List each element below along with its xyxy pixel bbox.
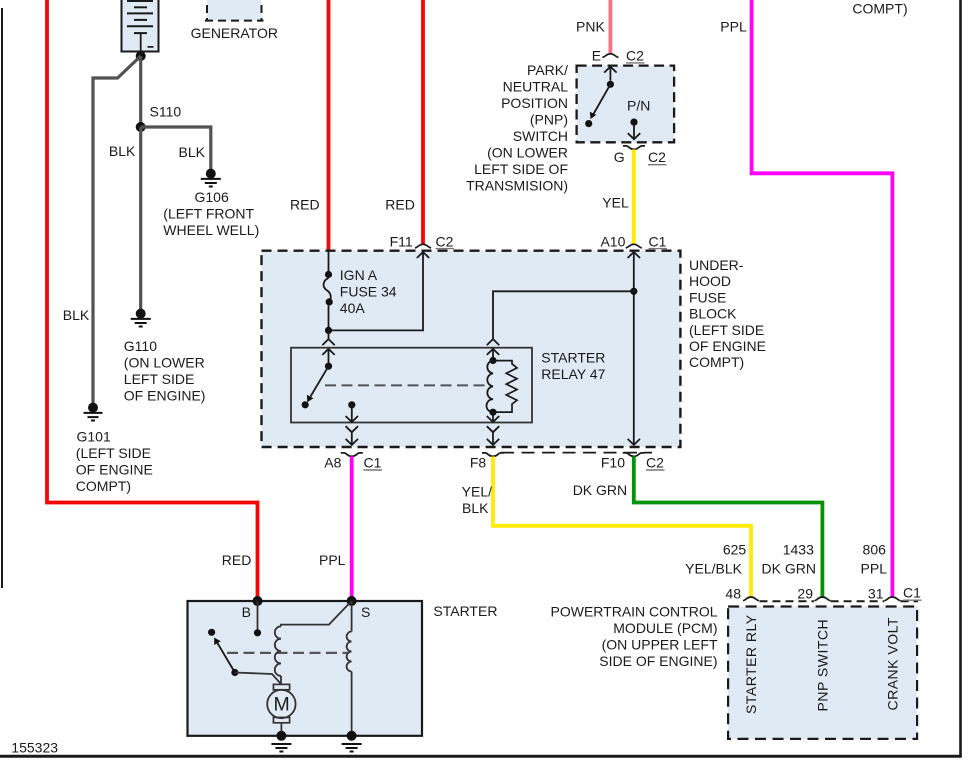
svg-text:C2: C2 — [646, 455, 664, 471]
svg-text:C2: C2 — [626, 47, 644, 63]
arrow terminal F11 — [417, 252, 429, 258]
svg-text:PARK/: PARK/ — [527, 62, 568, 78]
svg-text:40A: 40A — [340, 300, 366, 316]
connector pin F8 — [482, 453, 504, 457]
svg-text:G106: G106 — [195, 189, 229, 205]
svg-text:B: B — [242, 604, 251, 620]
wire relay coil to F8 — [492, 412, 494, 422]
underhood fuse block box — [262, 251, 681, 447]
wire YEL PNP G to A10 — [632, 150, 636, 245]
svg-text:NEUTRAL: NEUTRAL — [503, 78, 569, 94]
arrow terminal A10 — [628, 252, 640, 258]
connector pin 48 — [743, 597, 759, 601]
svg-text:SWITCH: SWITCH — [513, 128, 568, 144]
svg-text:LEFT SIDE OF: LEFT SIDE OF — [474, 161, 568, 177]
svg-text:OF ENGINE: OF ENGINE — [76, 462, 153, 478]
svg-text:G110: G110 — [124, 338, 157, 354]
svg-text:1433: 1433 — [783, 542, 814, 558]
svg-text:C1: C1 — [649, 234, 667, 250]
svg-text:LEFT SIDE: LEFT SIDE — [124, 371, 195, 387]
node battery negative terminal — [136, 51, 146, 61]
connector pin A8 C1 — [341, 453, 363, 457]
svg-text:(LEFT FRONT: (LEFT FRONT — [163, 205, 254, 221]
svg-text:DK GRN: DK GRN — [762, 561, 816, 577]
svg-text:PPL: PPL — [861, 561, 888, 577]
PNP switch movable blade — [607, 81, 614, 88]
svg-text:(PNP): (PNP) — [530, 111, 568, 127]
svg-text:UNDER-: UNDER- — [689, 257, 744, 273]
svg-text:(ON LOWER: (ON LOWER — [124, 355, 205, 371]
svg-text:RED: RED — [385, 197, 415, 213]
svg-text:F8: F8 — [470, 455, 487, 471]
svg-text:STARTER: STARTER — [541, 350, 605, 366]
label UNDERHOOD FUSE BLOCK — [689, 257, 766, 370]
svg-text:RED: RED — [222, 552, 252, 568]
svg-text:OF ENGINE: OF ENGINE — [689, 338, 766, 354]
svg-text:155323: 155323 — [11, 739, 58, 755]
connector pin 29 — [814, 597, 830, 601]
fuse IGN A FUSE 34 40A — [324, 250, 333, 330]
svg-text:C1: C1 — [364, 455, 382, 471]
relay coil feed from A10 junction — [493, 291, 634, 339]
svg-text:PPL: PPL — [319, 552, 346, 568]
ground G101 — [84, 403, 103, 421]
PCM connector row — [760, 600, 919, 602]
starter switch contact — [208, 629, 215, 636]
node starter S terminal — [347, 596, 357, 606]
connector pin G C2 — [623, 146, 645, 150]
svg-text:HOOD: HOOD — [689, 273, 731, 289]
battery B1 — [122, 0, 159, 56]
wire PPL A8 to starter S — [350, 457, 354, 602]
arrow terminal E inside PNP — [604, 67, 616, 73]
svg-text:GENERATOR: GENERATOR — [191, 25, 278, 41]
connector pin F10 C2 — [623, 453, 645, 457]
svg-text:S110: S110 — [150, 104, 182, 120]
wire YEL/BLK F8 to PCM 48 — [493, 457, 751, 598]
label PARK/NEUTRAL POSITION SWITCH — [466, 62, 568, 194]
svg-text:FUSE 34: FUSE 34 — [340, 284, 397, 300]
svg-text:YEL/BLK: YEL/BLK — [685, 561, 742, 577]
starter pull-in coil — [275, 626, 281, 676]
svg-text:S: S — [361, 604, 370, 620]
svg-text:BLK: BLK — [63, 307, 90, 323]
svg-text:STARTER RLY: STARTER RLY — [743, 614, 759, 714]
wire BLK S110 to G110 — [139, 127, 142, 310]
wire DK GRN F10 to PCM 29 — [634, 457, 823, 598]
wire relay output to A8 — [351, 405, 353, 422]
svg-text:806: 806 — [863, 542, 887, 558]
relay output contact — [348, 401, 355, 408]
relay coil — [489, 357, 496, 364]
svg-text:CRANK VOLT: CRANK VOLT — [884, 617, 900, 710]
svg-text:A8: A8 — [324, 455, 341, 471]
svg-text:(ON UPPER LEFT: (ON UPPER LEFT — [602, 637, 718, 653]
svg-text:YEL: YEL — [602, 195, 629, 211]
svg-text:C2: C2 — [648, 149, 666, 165]
wire fuse to relay common — [328, 330, 330, 339]
svg-text:BLK: BLK — [109, 143, 136, 159]
wire RED to F11 — [421, 0, 425, 245]
svg-text:SIDE OF ENGINE): SIDE OF ENGINE) — [599, 653, 717, 669]
wire BLK battery to S110 — [139, 56, 142, 127]
starter solenoid ground — [342, 731, 362, 752]
relay switch blade — [311, 366, 329, 396]
svg-text:COMPT): COMPT) — [852, 1, 907, 17]
connector pin E C2 — [602, 54, 618, 58]
svg-text:OF ENGINE): OF ENGINE) — [124, 388, 206, 404]
svg-text:WHEEL WELL): WHEEL WELL) — [163, 222, 259, 238]
connector C2 strip at fuse block bottom — [501, 452, 652, 454]
wire A10 through fuse block to F10 — [633, 252, 635, 445]
svg-text:PPL: PPL — [720, 19, 747, 35]
starter switch to motor strap — [235, 673, 281, 684]
frame bottom border — [0, 755, 962, 758]
svg-text:YEL/: YEL/ — [462, 484, 492, 500]
frame right border — [959, 0, 962, 757]
svg-text:29: 29 — [797, 585, 813, 601]
svg-text:FUSE: FUSE — [689, 289, 726, 305]
svg-text:BLOCK: BLOCK — [689, 306, 737, 322]
node junction on A10-F10 wire — [630, 288, 637, 295]
svg-text:POSITION: POSITION — [501, 95, 568, 111]
svg-text:BLK: BLK — [179, 144, 206, 160]
svg-text:TRANSMISION): TRANSMISION) — [466, 177, 568, 193]
svg-text:31: 31 — [868, 585, 884, 601]
PNP P/N contact with arrow to G — [630, 119, 637, 126]
svg-text:DK GRN: DK GRN — [573, 482, 627, 498]
wire RED to fuse block IGN A — [327, 0, 331, 250]
starter box — [188, 601, 423, 736]
svg-text:COMPT): COMPT) — [689, 354, 744, 370]
svg-text:F11: F11 — [390, 234, 413, 250]
svg-text:M: M — [274, 694, 290, 716]
connector pin 31 — [884, 597, 900, 601]
starter linkage dashed — [227, 652, 348, 654]
label POWERTRAIN CONTROL MODULE — [551, 604, 718, 670]
starter switch blade — [217, 642, 235, 673]
starter motor M — [267, 684, 295, 735]
ground G110 — [131, 309, 151, 327]
relay linkage dashed — [325, 384, 490, 386]
frame left border — [1, 8, 3, 588]
PCM box — [728, 607, 917, 739]
svg-text:G101: G101 — [77, 429, 111, 445]
svg-text:625: 625 — [723, 542, 747, 558]
wire PPL to PCM crank volt — [752, 0, 893, 597]
wire BLK S110 to G106 — [141, 127, 211, 169]
wire PNK to PNP switch E — [609, 0, 613, 53]
svg-text:RELAY 47: RELAY 47 — [541, 366, 605, 382]
svg-text:STARTER: STARTER — [433, 603, 497, 619]
svg-text:E: E — [592, 47, 601, 63]
svg-text:48: 48 — [725, 585, 741, 601]
svg-text:COMPT): COMPT) — [76, 478, 131, 494]
svg-text:A10: A10 — [600, 234, 625, 250]
starter motor ground — [271, 731, 291, 752]
svg-text:IGN A: IGN A — [340, 267, 378, 283]
svg-text:C2: C2 — [436, 234, 454, 250]
svg-text:C1: C1 — [903, 585, 921, 601]
wire F11 to fuse output — [329, 252, 424, 330]
svg-text:MODULE (PCM): MODULE (PCM) — [613, 620, 717, 636]
svg-text:P/N: P/N — [627, 98, 650, 114]
svg-text:F10: F10 — [601, 455, 625, 471]
PNP contact dot — [585, 120, 592, 127]
starter hold-in coil — [351, 601, 353, 632]
svg-text:(LEFT SIDE: (LEFT SIDE — [689, 322, 764, 338]
relay NO contact — [302, 401, 309, 408]
wire RED battery feed to starter B — [47, 0, 258, 601]
wire BLK battery to G101 — [93, 56, 141, 404]
relay switch common dot — [325, 363, 332, 370]
svg-text:(LEFT SIDE: (LEFT SIDE — [76, 445, 151, 461]
svg-text:(ON LOWER: (ON LOWER — [487, 144, 568, 160]
node starter B terminal — [253, 596, 263, 606]
svg-text:PNP SWITCH: PNP SWITCH — [814, 619, 830, 712]
svg-text:BLK: BLK — [462, 500, 489, 516]
PNP switch box — [577, 66, 675, 143]
relay coil resistor — [495, 361, 517, 413]
starter B stub — [257, 601, 259, 629]
svg-text:G: G — [614, 149, 625, 165]
node S110 splice — [136, 122, 146, 132]
node fuse output junction — [325, 327, 332, 334]
svg-text:PNK: PNK — [576, 19, 605, 35]
generator dashed box — [205, 0, 264, 21]
svg-text:RED: RED — [290, 197, 320, 213]
connector pin A10 C1 — [626, 244, 642, 248]
ground G106 — [201, 169, 221, 187]
starter S to pull-in coil — [281, 601, 352, 626]
svg-text:POWERTRAIN CONTROL: POWERTRAIN CONTROL — [551, 604, 718, 620]
starter relay box — [291, 348, 532, 423]
connector pin F11 C2 — [415, 244, 431, 248]
